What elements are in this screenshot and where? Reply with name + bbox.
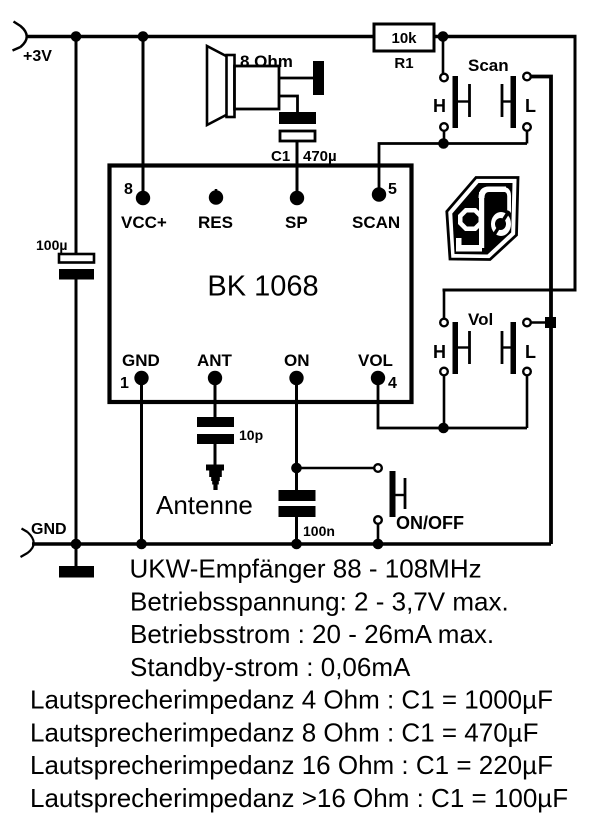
wire R1 junction down to Scan H (442, 37, 445, 74)
wire down to Vol H top (443, 290, 446, 318)
svg-text:ANT: ANT (197, 351, 233, 370)
svg-text:Betriebsspannung: 2 - 3,7V max: Betriebsspannung: 2 - 3,7V max. (130, 586, 509, 616)
wire 10p to antenna arrow (214, 444, 217, 466)
wire top rail left (+3V to R1) (26, 35, 374, 38)
svg-text:100n: 100n (303, 523, 335, 539)
pin 1 GND (134, 371, 148, 385)
svg-text:10k: 10k (391, 30, 417, 47)
wire ON pin down (295, 378, 298, 490)
wire horizontal to Vol H (443, 289, 577, 292)
connector +3V terminal (13, 22, 27, 51)
svg-text:L: L (525, 342, 536, 362)
terminal bar speaker (313, 61, 324, 95)
wire 100u branch lower (75, 279, 78, 544)
svg-text:100µ: 100µ (36, 237, 67, 253)
wire Scan H bottom down (443, 131, 446, 144)
pin RES (209, 190, 223, 204)
node junction Vol bottoms (438, 423, 449, 434)
capacitor C1 plates (279, 112, 316, 141)
pushbutton Scan L (502, 73, 531, 131)
node junction bottom rail 100n (291, 539, 302, 550)
wire 100u branch upper (75, 37, 78, 256)
svg-text:ON/OFF: ON/OFF (396, 513, 464, 533)
wire speaker lower terminal (279, 96, 298, 112)
svg-text:Lautsprecherimpedanz >16 Ohm :: Lautsprecherimpedanz >16 Ohm : C1 = 100µ… (30, 783, 568, 813)
svg-text:SCAN: SCAN (352, 213, 400, 232)
node junction ON branch (291, 463, 302, 474)
svg-text:8 Ohm: 8 Ohm (240, 52, 293, 71)
svg-text:1: 1 (120, 375, 129, 392)
svg-text:C1: C1 (271, 148, 290, 165)
node junction bottom rail ON/OFF (373, 539, 384, 550)
wire ON junction to switch (297, 467, 374, 470)
svg-text:GND: GND (31, 521, 67, 538)
IC U1 BK1068 body (110, 166, 412, 403)
svg-text:VCC+: VCC+ (121, 213, 167, 232)
wire bottom rail (32, 542, 551, 545)
resistor R1 (374, 24, 434, 51)
wire ON/OFF to bottom rail (377, 524, 380, 544)
svg-text:10p: 10p (239, 427, 263, 443)
pin 5 SCAN (372, 187, 386, 201)
pin 8 VCC+ (136, 191, 150, 205)
logo badge (447, 178, 518, 260)
wire right vertical from rail corner down (574, 37, 577, 292)
pushbutton Scan H (440, 74, 469, 131)
svg-text:BK 1068: BK 1068 (207, 271, 318, 303)
svg-text:H: H (433, 96, 446, 116)
speaker LS1 frame (227, 55, 235, 117)
node junction Scan bottoms (438, 138, 449, 149)
svg-text:H: H (433, 342, 446, 362)
wire top rail right (R1 to right corner) (434, 35, 577, 38)
antenna arrow (206, 465, 224, 491)
svg-text:+3V: +3V (23, 48, 52, 65)
svg-text:4: 4 (388, 375, 397, 392)
pin RES stub (215, 189, 218, 197)
wire Scan L top to right bus (531, 77, 551, 545)
svg-text:RES: RES (198, 213, 233, 232)
pushbutton Vol H (440, 319, 469, 376)
svg-text:L: L (525, 96, 536, 116)
wire speaker upper terminal (279, 77, 313, 80)
svg-text:UKW-Empfänger 88 - 108MHz: UKW-Empfänger 88 - 108MHz (130, 554, 482, 584)
svg-text:Lautsprecherimpedanz 16 Ohm :: Lautsprecherimpedanz 16 Ohm : C1 = 220µF (30, 750, 553, 780)
node junction top rail at VCC (138, 31, 149, 42)
svg-text:470µ: 470µ (303, 148, 337, 165)
svg-text:Scan: Scan (468, 56, 509, 75)
wire GND pin to bottom rail (140, 378, 143, 544)
node junction right of R1 (438, 31, 449, 42)
svg-text:5: 5 (388, 181, 397, 198)
wire VOL pin to Vol bottoms (378, 378, 527, 428)
svg-text:Betriebsstrom : 20 - 26mA max.: Betriebsstrom : 20 - 26mA max. (130, 619, 494, 649)
wire Vol H bottom down (443, 375, 446, 428)
wire Scan bottoms to SCAN pin (379, 144, 527, 195)
node junction Vol L on bus (545, 317, 556, 328)
svg-text:8: 8 (124, 181, 133, 198)
node junction bottom rail 100u (71, 539, 82, 550)
svg-text:Standby-strom : 0,06mA: Standby-strom : 0,06mA (130, 652, 411, 682)
wire Scan L bottom down (526, 131, 529, 144)
node junction top rail at 100u (71, 31, 82, 42)
svg-text:Vol: Vol (468, 310, 493, 329)
capacitor 100n plates (279, 490, 316, 517)
svg-text:R1: R1 (394, 55, 413, 72)
ground bar (59, 544, 94, 578)
wire C1 to SP pin (296, 141, 299, 198)
pin ON (289, 371, 303, 385)
wire ANT pin down (214, 378, 217, 417)
svg-text:VOL: VOL (358, 351, 393, 370)
pin SP (290, 191, 304, 205)
svg-text:ON: ON (284, 351, 310, 370)
wire Vol L top to right bus (531, 321, 551, 324)
svg-text:Antenne: Antenne (156, 490, 253, 520)
capacitor 10p plates (197, 417, 234, 444)
svg-text:SP: SP (285, 213, 308, 232)
svg-text:GND: GND (122, 351, 160, 370)
wire VCC pin to rail (142, 37, 145, 198)
node junction bottom rail GND pin (136, 539, 147, 550)
switch ON/OFF (374, 464, 405, 524)
connector GND terminal (21, 529, 34, 558)
svg-text:Lautsprecherimpedanz 8 Ohm : C: Lautsprecherimpedanz 8 Ohm : C1 = 470µF (30, 717, 539, 747)
speaker LS1 cone (207, 46, 228, 125)
wire Vol L bottom down (526, 375, 529, 428)
svg-text:Lautsprecherimpedanz 4 Ohm : C: Lautsprecherimpedanz 4 Ohm : C1 = 1000µF (30, 685, 553, 715)
capacitor 100u (59, 254, 94, 280)
pin 4 VOL (371, 371, 385, 385)
pin ANT (208, 371, 222, 385)
pushbutton Vol L (502, 319, 531, 376)
speaker LS1 driver box (235, 66, 280, 109)
wire 100n to bottom rail (295, 517, 298, 544)
